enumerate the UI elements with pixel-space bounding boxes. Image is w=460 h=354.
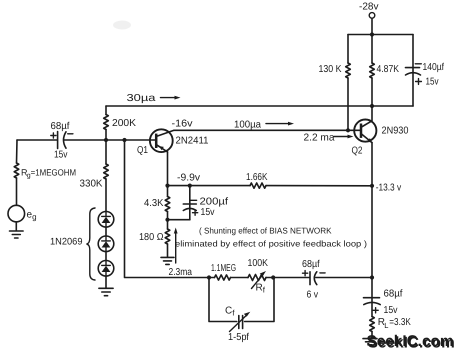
- svg-text:68µf: 68µf: [302, 259, 320, 270]
- svg-text:15v: 15v: [54, 150, 68, 161]
- svg-text:-28v: -28v: [359, 2, 379, 13]
- svg-text:4.87K: 4.87K: [377, 64, 400, 75]
- svg-text:180 Ω: 180 Ω: [139, 232, 164, 243]
- svg-text:-9.9v: -9.9v: [177, 172, 200, 183]
- svg-text:200µf: 200µf: [200, 197, 229, 208]
- svg-text:2.2 ma: 2.2 ma: [304, 132, 335, 143]
- svg-text:L: L: [384, 321, 388, 330]
- svg-text:2N2411: 2N2411: [176, 136, 209, 147]
- svg-text:SeekIC.com: SeekIC.com: [367, 333, 454, 350]
- svg-text:2N930: 2N930: [382, 125, 409, 136]
- svg-text:-16v: -16v: [172, 119, 193, 130]
- svg-text:1.66K: 1.66K: [246, 172, 268, 183]
- svg-text:1.1MEG: 1.1MEG: [211, 263, 236, 274]
- svg-text:1-5pf: 1-5pf: [228, 332, 249, 343]
- svg-text:Q2: Q2: [352, 146, 363, 157]
- svg-text:140µf: 140µf: [423, 62, 445, 73]
- svg-text:130 K: 130 K: [319, 64, 342, 75]
- svg-text:68µf: 68µf: [384, 289, 403, 300]
- svg-text:200K: 200K: [112, 118, 136, 129]
- svg-text:2.3ma: 2.3ma: [169, 267, 193, 278]
- svg-text:eliminated by effect of po: eliminated by effect of positive feedbac…: [175, 239, 367, 249]
- svg-text:6 v: 6 v: [307, 290, 319, 301]
- svg-text:=1MEGOHM: =1MEGOHM: [31, 168, 77, 178]
- svg-text:Q1: Q1: [137, 145, 148, 156]
- svg-text:100µa: 100µa: [234, 120, 261, 131]
- svg-text:15v: 15v: [426, 77, 439, 88]
- svg-text:-13.3 v: -13.3 v: [376, 183, 402, 194]
- svg-text:330K: 330K: [80, 179, 103, 190]
- svg-text:4.3K: 4.3K: [144, 198, 164, 209]
- svg-text:68µf: 68µf: [51, 121, 70, 132]
- svg-text:30µa: 30µa: [127, 93, 157, 104]
- svg-text:=3.3K: =3.3K: [389, 317, 411, 328]
- svg-text:15v: 15v: [384, 305, 398, 316]
- svg-text:1N2069: 1N2069: [50, 237, 83, 248]
- svg-text:( Shunting effect of BIAS N: ( Shunting effect of BIAS NETWORK: [199, 226, 332, 236]
- svg-text:100K: 100K: [248, 258, 269, 269]
- svg-text:15v: 15v: [201, 207, 215, 218]
